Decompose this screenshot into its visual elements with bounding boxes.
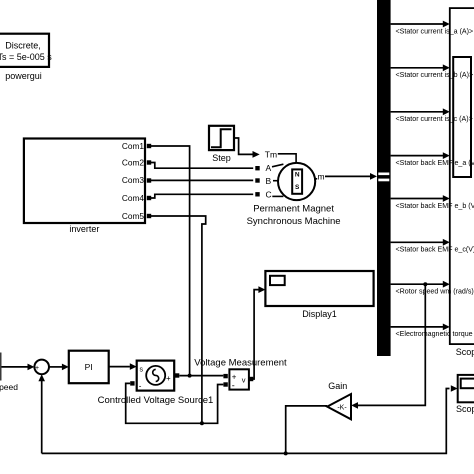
svg-text:-: - bbox=[232, 380, 235, 390]
wire sum to PI bbox=[49, 364, 69, 371]
step block Step bbox=[209, 126, 234, 163]
svg-text:Scope1: Scope1 bbox=[456, 404, 474, 414]
svg-text:Display1: Display1 bbox=[302, 309, 337, 319]
svg-text:v: v bbox=[242, 375, 246, 384]
wire CVS+ to VM+ bbox=[179, 375, 223, 377]
inverter port Com2 bbox=[147, 160, 151, 164]
Gain block bbox=[327, 381, 351, 420]
svg-text:+: + bbox=[166, 374, 171, 383]
svg-text:N: N bbox=[295, 171, 300, 178]
wire VM to Display1 bbox=[251, 286, 266, 379]
svg-text:<Stator back EMF e_c(V)>: <Stator back EMF e_c(V)> bbox=[396, 246, 474, 254]
svg-text:B: B bbox=[266, 176, 272, 186]
wire feedback line bbox=[42, 389, 450, 454]
svg-text:<Rotor speed wm (rad/s)>: <Rotor speed wm (rad/s)> bbox=[396, 288, 474, 296]
svg-text:s: s bbox=[140, 367, 144, 374]
wire Com5 to -node bbox=[151, 216, 206, 423]
wire rotor speed to Gain bbox=[351, 284, 425, 409]
svg-text:powergui: powergui bbox=[5, 71, 42, 81]
svg-text:<Stator current is_b (A)>: <Stator current is_b (A)> bbox=[396, 71, 474, 79]
svg-text:inverter: inverter bbox=[69, 224, 99, 234]
svg-text:Com4: Com4 bbox=[122, 193, 145, 203]
svg-text:<Stator current is_c (A)>: <Stator current is_c (A)> bbox=[396, 115, 473, 123]
junction Com1/+wire bbox=[188, 374, 192, 378]
Controlled Voltage Source1 block bbox=[98, 361, 214, 406]
svg-text:Tm: Tm bbox=[265, 149, 277, 159]
inverter port Com5 bbox=[147, 214, 151, 218]
wire bus row8 bbox=[391, 324, 474, 339]
arrow into Scope1 bbox=[451, 385, 458, 392]
sum block bbox=[34, 360, 49, 378]
wire Com2 to A bbox=[151, 163, 253, 169]
wire Step to Tm bbox=[234, 138, 260, 158]
wire bus row7 bbox=[391, 281, 474, 296]
svg-text:Com5: Com5 bbox=[122, 211, 145, 221]
wire bus row3 bbox=[391, 108, 473, 123]
svg-text:Synchronous Machine: Synchronous Machine bbox=[247, 216, 341, 227]
junction Com5/-wire bbox=[200, 421, 204, 425]
speed source block bbox=[0, 354, 18, 392]
svg-text:Controlled Voltage Source1: Controlled Voltage Source1 bbox=[98, 395, 214, 406]
wire PI to CVS s bbox=[109, 363, 137, 370]
svg-text:Com2: Com2 bbox=[122, 158, 145, 168]
wire CVS- to VM- bbox=[126, 383, 224, 423]
Scope block bbox=[450, 8, 474, 357]
svg-text:Gain: Gain bbox=[328, 381, 347, 391]
svg-text:<Stator back EMF e_a (V)>: <Stator back EMF e_a (V)> bbox=[396, 159, 474, 167]
inverter port Com4 bbox=[147, 196, 151, 200]
wire speed to sum bbox=[2, 364, 35, 371]
svg-text:Voltage Measurement: Voltage Measurement bbox=[194, 357, 287, 368]
powergui block bbox=[0, 34, 52, 81]
junction gain/feedback bbox=[284, 451, 288, 455]
svg-text:Com1: Com1 bbox=[122, 141, 145, 151]
svg-text:PI: PI bbox=[85, 362, 93, 372]
svg-text:speed: speed bbox=[0, 382, 18, 392]
wire bus row5 bbox=[391, 195, 474, 210]
wire bus row1 bbox=[391, 21, 474, 36]
svg-text:Step: Step bbox=[212, 153, 231, 163]
wire m to bus bbox=[325, 173, 377, 180]
Display1 block bbox=[265, 271, 373, 319]
svg-text:A: A bbox=[266, 163, 272, 173]
svg-text:m: m bbox=[318, 172, 325, 182]
svg-text:Discrete,: Discrete, bbox=[5, 41, 41, 51]
svg-text:-: - bbox=[139, 382, 142, 391]
svg-text:<Stator current is_a (A)>: <Stator current is_a (A)> bbox=[396, 27, 474, 35]
inverter port Com3 bbox=[147, 178, 151, 182]
svg-text:C: C bbox=[266, 190, 272, 200]
svg-text:<Stator back EMF e_b (V)>: <Stator back EMF e_b (V)> bbox=[396, 202, 474, 210]
wire bus row4 bbox=[391, 152, 474, 167]
inverter port Com1 bbox=[147, 144, 151, 148]
svg-text:Permanent Magnet: Permanent Magnet bbox=[253, 204, 334, 215]
wire bus row2 bbox=[391, 64, 474, 79]
wire Com3 to B bbox=[151, 179, 253, 181]
inverter block bbox=[24, 139, 145, 234]
svg-text:<Electromagnetic torque Te (N*: <Electromagnetic torque Te (N*m)> bbox=[396, 330, 474, 338]
svg-text:-K-: -K- bbox=[337, 404, 347, 411]
wire Gain out to feedback bbox=[286, 406, 328, 454]
svg-text:S: S bbox=[295, 184, 300, 191]
bus selector bar bbox=[377, 0, 391, 356]
wire Com4 to C bbox=[151, 194, 253, 198]
Scope1 block bbox=[456, 375, 474, 414]
svg-text:Ts = 5e-005 s: Ts = 5e-005 s bbox=[0, 52, 52, 62]
junction rotor-speed tap bbox=[423, 282, 427, 286]
wire bus row6 bbox=[391, 239, 474, 254]
PI block bbox=[69, 351, 109, 384]
Voltage Measurement block bbox=[194, 357, 287, 390]
wire Com1 to +node bbox=[151, 146, 190, 376]
svg-text:Com3: Com3 bbox=[122, 175, 145, 185]
svg-text:Scope: Scope bbox=[456, 347, 474, 357]
wire feedback to sum bbox=[38, 374, 45, 453]
PMSM machine U1 bbox=[247, 149, 341, 227]
